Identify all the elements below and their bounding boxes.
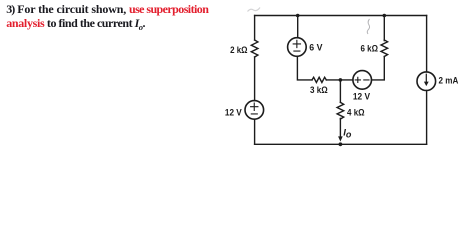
wire right rail upper xyxy=(426,16,428,72)
svg-text:12 V: 12 V xyxy=(225,108,242,119)
svg-text:Io: Io xyxy=(343,128,352,140)
svg-text:3 kΩ: 3 kΩ xyxy=(310,85,328,96)
wire 6V branch to middle rail xyxy=(297,56,312,80)
wire left rail middle xyxy=(254,57,256,101)
node B top-right junction dot xyxy=(383,14,387,18)
resistor 3 kΩ xyxy=(312,77,326,82)
wire 6V branch top xyxy=(297,16,299,38)
source V3 12V (middle) xyxy=(353,71,372,90)
current source I1 2mA xyxy=(417,72,436,91)
problem statement text xyxy=(6,2,208,35)
svg-text:2 kΩ: 2 kΩ xyxy=(230,45,248,56)
node C middle junction dot xyxy=(339,78,343,82)
svg-text:6 V: 6 V xyxy=(309,42,323,53)
svg-text:6 kΩ: 6 kΩ xyxy=(361,44,379,55)
svg-text:12 V: 12 V xyxy=(353,92,371,103)
resistor 6 kΩ xyxy=(381,40,388,57)
wire middle to node xyxy=(326,79,353,81)
svg-text:4 kΩ: 4 kΩ xyxy=(347,108,365,119)
node D bottom junction dot xyxy=(339,142,343,146)
arrowhead of Io current xyxy=(338,136,343,141)
svg-text:2 mA: 2 mA xyxy=(439,76,459,87)
source V1 12V (left) xyxy=(245,101,264,120)
wire top rail xyxy=(255,15,427,17)
resistor 4 kΩ xyxy=(337,102,344,119)
source V2 6V xyxy=(288,38,307,57)
arrowhead of 2mA source xyxy=(424,82,429,87)
faint scan artifact smudge above top-left corner xyxy=(248,8,261,12)
node A top-left junction dot xyxy=(296,14,300,18)
wire middle right segment xyxy=(372,57,385,80)
wire left rail lower xyxy=(254,119,256,144)
wire right rail lower xyxy=(426,91,428,145)
wire left rail upper xyxy=(254,16,256,41)
wire 4k to bottom node with Io arrow xyxy=(339,118,341,136)
wire node to 4k xyxy=(339,80,341,103)
wire 6k to top rail xyxy=(383,16,385,41)
faint scan artifact squiggle xyxy=(367,19,369,34)
wire bottom rail xyxy=(255,143,427,145)
resistor 2 kΩ xyxy=(251,40,258,57)
